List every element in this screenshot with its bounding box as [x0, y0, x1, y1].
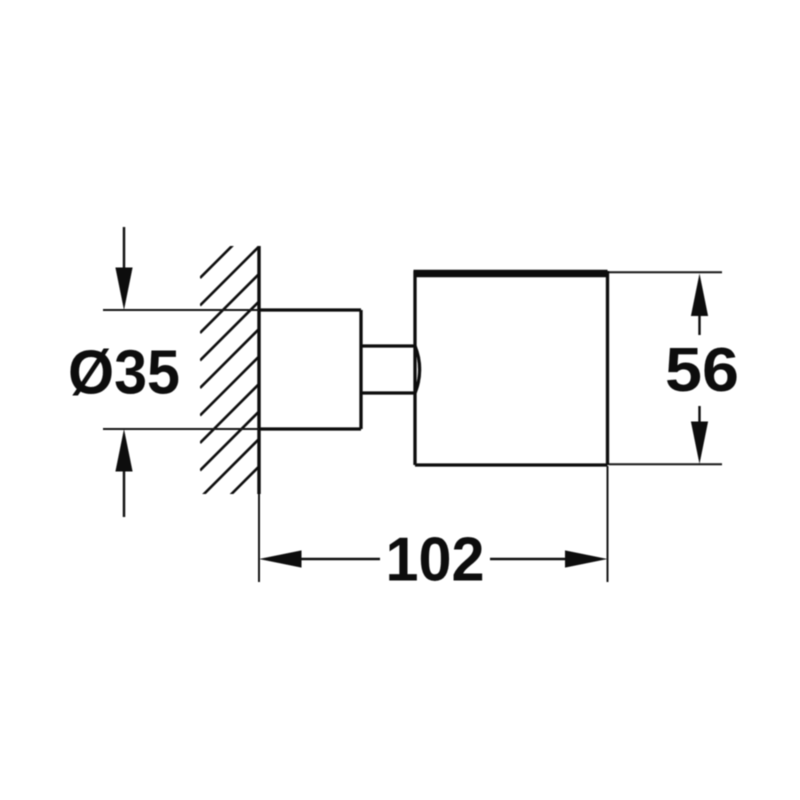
svg-text:56: 56	[665, 336, 739, 405]
svg-text:102: 102	[386, 526, 485, 595]
svg-text:Ø35: Ø35	[68, 339, 180, 408]
